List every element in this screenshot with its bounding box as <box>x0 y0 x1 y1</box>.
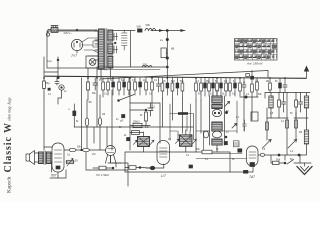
resistor <box>43 81 46 89</box>
choke L2 lower <box>97 64 167 67</box>
switch <box>119 95 135 101</box>
variometer <box>212 109 221 116</box>
bottom center loop <box>125 152 230 172</box>
bottom right wiring <box>259 155 312 163</box>
svg-text:8μF: 8μF <box>171 81 176 83</box>
rectifier leads <box>82 38 99 56</box>
mains plug <box>46 33 49 36</box>
svg-text:50k: 50k <box>258 94 263 96</box>
svg-text:50: 50 <box>75 159 79 163</box>
svg-text:5k: 5k <box>232 159 235 161</box>
capacitor <box>282 93 286 113</box>
svg-text:0,1: 0,1 <box>186 155 190 157</box>
svg-text:ε: ε <box>69 107 71 111</box>
svg-text:50: 50 <box>290 113 293 115</box>
svg-text:50k: 50k <box>180 81 185 83</box>
resistor <box>87 82 90 90</box>
DC out arrows <box>151 30 185 32</box>
right tuner: line <box>265 93 310 99</box>
wire <box>48 30 51 34</box>
resistor <box>239 83 242 91</box>
lower tuner parts <box>267 117 308 119</box>
resistor <box>83 148 90 151</box>
tube V3 <box>157 141 170 165</box>
switch box <box>170 131 194 140</box>
electrolytic <box>204 83 207 88</box>
svg-text:5k: 5k <box>243 83 246 85</box>
tuner coil <box>269 96 273 108</box>
svg-text:500: 500 <box>137 25 142 29</box>
svg-text:5k: 5k <box>216 149 219 151</box>
svg-text:0,1: 0,1 <box>104 94 108 96</box>
left stage verticals <box>43 96 45 150</box>
switch diagonal <box>287 160 294 165</box>
svg-text:5k: 5k <box>76 121 79 123</box>
svg-text:0,1: 0,1 <box>67 154 71 157</box>
trimmer arrow <box>288 140 297 149</box>
electrolytic <box>220 83 223 88</box>
capacitor blob <box>48 88 51 91</box>
tube V4 <box>247 146 259 166</box>
resistor <box>229 83 232 91</box>
electrolytic <box>139 82 142 87</box>
trimmer arrow <box>263 140 272 149</box>
svg-text:0,1: 0,1 <box>205 159 209 161</box>
IFT winding <box>212 139 222 145</box>
svg-text:25kΩ: 25kΩ <box>133 120 140 124</box>
resistor <box>195 83 198 91</box>
svg-text:0,5: 0,5 <box>262 149 266 151</box>
svg-text:2M: 2M <box>206 81 209 83</box>
capacitor <box>157 78 161 92</box>
micro value labels <box>48 80 302 161</box>
svg-text:0,5: 0,5 <box>224 81 228 83</box>
resistor <box>128 82 131 90</box>
electrolytic <box>234 83 237 88</box>
wire mains to transformer <box>58 29 97 31</box>
resistor <box>208 83 211 91</box>
bus junction dots <box>43 77 286 79</box>
resistor <box>107 82 110 90</box>
wire <box>81 78 83 150</box>
svg-text:2n: 2n <box>226 132 229 134</box>
svg-text:0,1: 0,1 <box>168 139 172 141</box>
B+ slanted feed wire <box>100 71 268 80</box>
smoothing capacitors C1 C2 <box>113 33 118 53</box>
lower IF wiring <box>204 131 243 154</box>
resistor <box>216 83 219 91</box>
svg-text:2n: 2n <box>64 91 67 93</box>
wire <box>130 109 146 111</box>
svg-text:50: 50 <box>89 100 93 104</box>
resistor <box>125 167 150 170</box>
resistor <box>200 83 203 91</box>
power unit box <box>47 31 98 68</box>
wires around tube2 <box>130 78 160 143</box>
IFT winding <box>212 96 222 103</box>
resistor <box>202 150 212 154</box>
resistor <box>295 100 298 107</box>
trimmer caps <box>225 102 230 107</box>
resistor <box>118 82 121 90</box>
svg-text:1k: 1k <box>128 94 131 96</box>
resistor <box>145 112 148 121</box>
IFT winding <box>212 105 222 109</box>
svg-text:0,1: 0,1 <box>236 117 240 119</box>
svg-text:2n: 2n <box>116 119 119 121</box>
AVC line <box>240 96 258 98</box>
electrolytic <box>176 83 179 88</box>
rectifier tube V1 <box>71 39 82 50</box>
wire <box>113 30 135 32</box>
tuner coil <box>304 96 308 108</box>
IF transformer T2b <box>176 130 197 152</box>
svg-text:0,1: 0,1 <box>246 94 250 96</box>
resistor <box>145 82 148 90</box>
svg-text:0,5: 0,5 <box>149 94 153 96</box>
resistor <box>181 83 184 91</box>
capacitor <box>55 78 59 85</box>
coupling cap <box>73 111 76 116</box>
resistor <box>102 82 105 90</box>
electrolytic <box>112 82 115 87</box>
speaker <box>26 154 30 161</box>
blob <box>189 165 193 168</box>
svg-text:7B7: 7B7 <box>51 174 57 178</box>
resistor <box>134 82 137 90</box>
resistor <box>99 166 106 170</box>
output tube V5 <box>52 143 64 172</box>
capacitor <box>299 93 303 113</box>
svg-text:0,1μ: 0,1μ <box>47 60 52 63</box>
svg-text:1n: 1n <box>271 97 274 99</box>
svg-text:50k: 50k <box>276 158 281 162</box>
svg-text:68: 68 <box>171 47 175 51</box>
IFT winding <box>212 122 222 131</box>
capacitor <box>242 78 246 93</box>
svg-text:50k: 50k <box>92 93 97 95</box>
coupling cap dark <box>178 112 188 115</box>
svg-text:500: 500 <box>146 23 151 27</box>
jack circle <box>59 85 64 90</box>
resistor <box>269 83 272 90</box>
svg-text:Classic W: Classic W <box>3 122 14 172</box>
capacitor <box>93 78 98 90</box>
capacitor <box>283 78 287 93</box>
resistor <box>278 100 281 107</box>
AF stage verticals <box>97 78 112 150</box>
svg-text:0,1: 0,1 <box>152 107 156 109</box>
svg-text:50k: 50k <box>196 149 201 151</box>
svg-text:0,1: 0,1 <box>290 151 294 153</box>
power box feet to bus <box>88 68 97 78</box>
wire <box>196 158 247 160</box>
left AC verticals <box>44 57 58 78</box>
svg-text:2k: 2k <box>124 135 127 137</box>
resistor <box>171 83 174 91</box>
filter choke L1 <box>145 28 156 30</box>
resistor <box>69 148 76 151</box>
resistor <box>98 118 101 126</box>
electrolytic C3 <box>161 48 166 58</box>
grid line resistors <box>64 149 106 151</box>
resistor 25k <box>130 125 150 127</box>
ground chevron <box>297 167 312 175</box>
svg-text:50: 50 <box>275 81 278 83</box>
svg-text:1M: 1M <box>102 114 105 116</box>
svg-text:5k: 5k <box>140 115 143 117</box>
svg-text:500: 500 <box>143 63 148 67</box>
dial lamp <box>86 56 99 68</box>
svg-text:8μF: 8μF <box>121 80 126 82</box>
svg-text:0,5: 0,5 <box>270 113 274 115</box>
resistor <box>225 83 228 91</box>
variometer oval <box>203 131 208 138</box>
svg-text:0,1: 0,1 <box>48 94 52 96</box>
resistor <box>273 161 280 164</box>
electrolytic <box>212 83 215 88</box>
output transformer <box>39 152 44 164</box>
resistor <box>151 82 154 90</box>
bottom-left network <box>86 152 128 186</box>
svg-text:50: 50 <box>215 81 218 83</box>
svg-text:2M: 2M <box>266 81 269 83</box>
svg-text:0,5: 0,5 <box>232 94 236 96</box>
mid verticals <box>162 98 201 152</box>
svg-text:0,1: 0,1 <box>196 81 200 83</box>
resistor 50k <box>130 132 143 134</box>
electrolytic <box>279 83 282 88</box>
svg-text:50μ: 50μ <box>46 82 51 85</box>
svg-text:220 V~: 220 V~ <box>64 31 73 35</box>
main HT bus <box>45 76 306 78</box>
voltage table <box>235 39 278 61</box>
detector parts <box>266 122 269 130</box>
resistor <box>161 83 164 91</box>
IF transformer T2a <box>134 132 154 152</box>
IF can leads <box>210 90 225 152</box>
svg-text:2k: 2k <box>222 94 225 96</box>
variometer <box>212 131 221 138</box>
svg-text:XX 1,5kΩ: XX 1,5kΩ <box>96 173 110 177</box>
connector blob <box>150 166 155 170</box>
cathode components under V5 <box>44 147 58 178</box>
trimmer cap <box>234 141 240 147</box>
svg-text:0,1: 0,1 <box>210 94 214 96</box>
B+ rail down <box>166 31 168 79</box>
volume pot <box>66 161 74 163</box>
connector <box>260 153 264 156</box>
triode V2 <box>106 146 116 156</box>
grid resistor <box>85 118 88 126</box>
svg-text:ohne mag. Auge: ohne mag. Auge <box>8 97 12 121</box>
svg-text:0,1: 0,1 <box>281 121 285 123</box>
power transformer T1 <box>95 29 113 79</box>
voltage selector S1 <box>51 26 58 33</box>
svg-text:Kapsch: Kapsch <box>7 177 13 193</box>
blob cap <box>122 115 125 118</box>
right columns <box>244 93 296 156</box>
svg-text:25: 25 <box>163 81 166 83</box>
coil <box>304 130 308 144</box>
antenna symbol <box>306 70 308 78</box>
svg-text:7Y7: 7Y7 <box>71 54 77 58</box>
resistor <box>251 84 254 92</box>
cap <box>148 103 153 116</box>
electrolytic <box>123 82 126 87</box>
cathode lead to loop <box>230 167 253 172</box>
svg-text:2+: 2+ <box>160 38 164 42</box>
resistor <box>256 82 259 90</box>
svg-text:L/7: L/7 <box>161 174 166 178</box>
long grid bus <box>74 126 193 128</box>
fuse <box>138 29 143 32</box>
electrolytic <box>166 83 169 88</box>
svg-text:0,1: 0,1 <box>154 80 158 82</box>
blob <box>127 138 130 141</box>
svg-text:μF: μF <box>120 119 124 123</box>
title block vertical text <box>3 97 14 193</box>
svg-text:7A7: 7A7 <box>249 175 255 179</box>
rectifier stack <box>122 30 128 50</box>
junction <box>251 76 254 79</box>
svg-text:50k: 50k <box>77 146 82 149</box>
svg-text:2M: 2M <box>299 132 302 134</box>
terminal box on bus <box>246 74 250 77</box>
svg-text:1M: 1M <box>92 153 95 156</box>
svg-text:Anl. 150mV: Anl. 150mV <box>246 61 264 65</box>
svg-text:50: 50 <box>226 111 229 113</box>
